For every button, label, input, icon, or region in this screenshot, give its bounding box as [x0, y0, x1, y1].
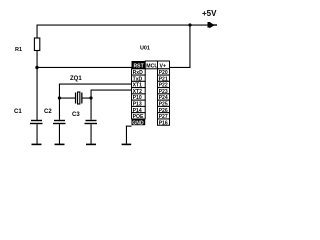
label R1 [15, 47, 22, 53]
wire: R1 bottom down to C1 [37, 51, 38, 121]
IC U1 pin P10 [132, 94, 146, 101]
svg-text:P16: P16 [159, 120, 168, 126]
IC U1 pin P27 (right) [158, 113, 170, 120]
node: crystal right junction [89, 96, 92, 99]
IC U1 pin P24 (right) [158, 94, 170, 101]
label C3 [72, 112, 80, 118]
label U1 [140, 46, 150, 52]
IC U1 pin P21 (right) [158, 75, 170, 82]
IC U1 pin RxD [132, 69, 146, 76]
+5V power rail wire [37, 25, 208, 26]
svg-text:C1: C1 [14, 109, 22, 115]
capacitor C2 [53, 120, 66, 144]
IC U1 pin XT2 [132, 88, 146, 95]
ground (C2) [55, 144, 65, 146]
label C1 [14, 109, 22, 115]
+5V label [202, 9, 217, 18]
capacitor C3 [85, 120, 98, 144]
wire: XT1 pin wire [59, 84, 132, 99]
node: crystal left junction [58, 96, 61, 99]
wire: C2 drop [59, 98, 60, 120]
IC U1 pin P16 (right) [158, 119, 170, 126]
IC U1 pin P14 [132, 106, 146, 113]
IC U1 pin RST (inverted) [132, 61, 146, 69]
wire: crystal right lead [82, 98, 91, 99]
IC U1 pin GND (inverted) [132, 119, 146, 126]
wire: rail down to R1 top [37, 25, 38, 39]
svg-text:ZQ1: ZQ1 [70, 76, 82, 82]
label C2 [44, 109, 52, 115]
svg-text:+5V: +5V [202, 9, 217, 18]
wire: crystal left lead [59, 98, 75, 99]
svg-text:MCU: MCU [146, 63, 158, 69]
wire: C3 drop [91, 98, 92, 120]
IC U1 pin POE [132, 113, 146, 120]
crystal ZQ1 [75, 92, 83, 104]
svg-text:U01: U01 [140, 46, 150, 52]
node: reset junction dot [35, 66, 38, 69]
svg-text:R1: R1 [15, 47, 22, 53]
ground (C3) [86, 144, 96, 146]
node: +5V junction dot [188, 23, 191, 26]
label ZQ1 [70, 76, 82, 82]
IC U1 pin P26 (right) [158, 106, 170, 113]
IC U1 pin P20 (right) [158, 69, 170, 76]
IC U1 pin P22 (right) [158, 81, 170, 88]
svg-text:C2: C2 [44, 109, 52, 115]
power terminal arrow [208, 22, 218, 28]
wire: XT2 pin wire [91, 90, 132, 99]
IC U1 pin P25 (right) [158, 100, 170, 107]
IC U1 pin XT1 [132, 81, 146, 88]
ground (IC GND) [122, 144, 132, 146]
IC U1 body: MCU box [145, 61, 158, 69]
ground (C1) [32, 144, 42, 146]
wire: RST pin wire [37, 67, 132, 68]
IC U1 pin P23 (right) [158, 88, 170, 95]
svg-text:GND: GND [132, 120, 144, 126]
IC U1 pin TxD [132, 75, 146, 82]
resistor R1 [34, 38, 39, 51]
svg-text:C3: C3 [72, 112, 80, 118]
wire: +5V drop to IC V+ pin [170, 25, 191, 68]
wire: GND pin to ground [126, 126, 132, 144]
IC U1 pin P13 [132, 100, 146, 107]
capacitor C1 [30, 120, 43, 144]
IC U1 pin V+ (right top) [158, 61, 170, 69]
